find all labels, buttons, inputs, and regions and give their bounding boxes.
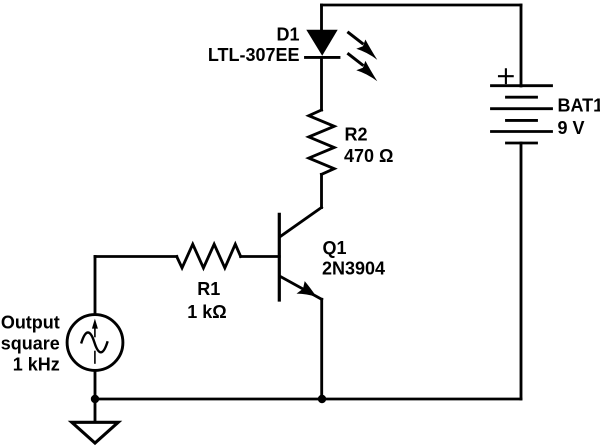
node junction dot emitter	[318, 395, 326, 403]
wire source to R1	[95, 255, 177, 258]
wire top rail	[322, 4, 522, 7]
ground	[72, 399, 118, 443]
wire Q1 emitter down	[320, 299, 323, 399]
wire R2 to Q1 collector	[320, 174, 323, 207]
svg-text:1 kHz: 1 kHz	[13, 355, 60, 375]
wire source bottom lead	[94, 370, 97, 399]
resistor R1	[177, 244, 241, 268]
wire battery top lead	[520, 5, 523, 86]
svg-text:BAT1: BAT1	[558, 96, 600, 116]
svg-text:2N3904: 2N3904	[322, 258, 385, 278]
svg-text:470 Ω: 470 Ω	[344, 146, 393, 166]
wire source top lead	[94, 257, 97, 315]
wire bottom rail	[95, 398, 521, 401]
svg-text:1 kΩ: 1 kΩ	[187, 302, 226, 322]
svg-text:R2: R2	[345, 125, 368, 145]
LED D1	[306, 30, 378, 82]
wire R1 to Q1 base	[241, 255, 280, 258]
svg-text:LTL-307EE: LTL-307EE	[208, 45, 300, 65]
source waveform glyph	[82, 319, 108, 363]
svg-text:9 V: 9 V	[558, 118, 585, 138]
source V1 circle	[67, 315, 123, 371]
wire LED cathode to R2	[320, 57, 323, 110]
svg-text:R1: R1	[197, 279, 220, 299]
node junction dot left	[91, 395, 99, 403]
svg-text:Q1: Q1	[323, 238, 347, 258]
svg-text:D1: D1	[276, 25, 299, 45]
battery plus sign	[499, 69, 513, 83]
battery BAT1	[492, 86, 552, 399]
svg-text:Output: Output	[1, 313, 60, 333]
wire LED anode lead	[320, 5, 323, 31]
transistor Q1	[279, 208, 321, 301]
svg-text:square: square	[1, 334, 60, 354]
resistor R2	[309, 110, 334, 174]
